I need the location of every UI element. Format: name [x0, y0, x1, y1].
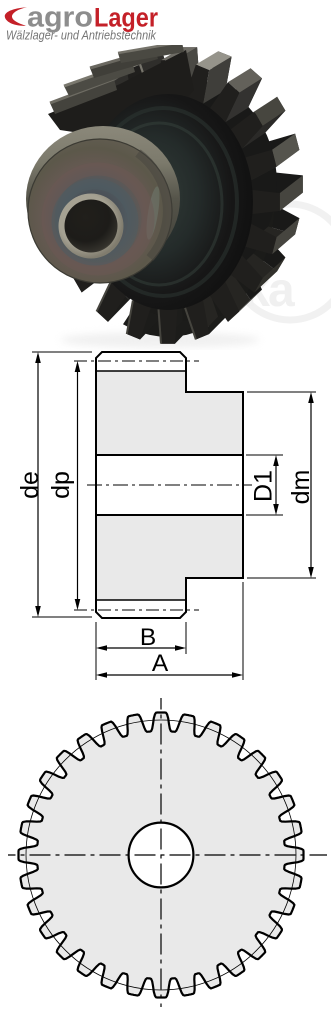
photo crown filler lower right [123, 193, 276, 337]
dm extension line top [247, 391, 316, 393]
hub gray fill lower [186, 515, 243, 578]
gear outline [96, 352, 243, 618]
photo hub side [26, 126, 180, 272]
pitch circle [26, 720, 296, 990]
photo hub face [28, 139, 172, 283]
B extension line right [185, 622, 187, 654]
photo hub tint ring purple [48, 169, 148, 269]
svg-text:dp: dp [47, 471, 75, 499]
B dimension line [96, 645, 186, 651]
photo hub cyan reflection [144, 186, 162, 241]
gear body gray fill lower [96, 515, 186, 600]
de extension line bottom [32, 616, 92, 618]
svg-text:B: B [140, 624, 156, 651]
de dimension line [35, 352, 41, 617]
svg-text:A: A [152, 650, 169, 677]
photo shadow [60, 332, 260, 348]
section drawing [0, 340, 331, 685]
A dimension line [96, 672, 243, 678]
dp dimension line [75, 361, 81, 610]
dm extension line bottom [247, 577, 316, 579]
D1 extension line top [246, 454, 283, 456]
dm dimension line [308, 392, 314, 578]
gear body gray fill upper [96, 371, 186, 455]
root line bottom [96, 599, 186, 601]
photo hub face right shadow [138, 153, 167, 258]
pitch centerline top [74, 360, 199, 362]
pitch centerline bottom [74, 609, 199, 611]
photo tooth top lands [280, 175, 303, 211]
D1 dimension line [273, 455, 279, 515]
gear photo [0, 45, 331, 350]
bore line top [96, 454, 243, 456]
photo gear front teeth [56, 60, 280, 343]
photo watermark ring [232, 204, 331, 320]
photo bore [65, 200, 118, 253]
photo shadow wedge under bars [48, 50, 194, 136]
logo swoosh [5, 7, 27, 26]
photo hub tint ring blue [57, 184, 133, 260]
de extension line top [32, 351, 92, 353]
B extension line left [95, 622, 97, 680]
vertical centerline [160, 698, 162, 1007]
svg-text:dm: dm [287, 470, 315, 505]
front view drawing [0, 685, 331, 1018]
root line top [96, 370, 186, 372]
bore axis centerline [87, 484, 252, 486]
svg-text:de: de [16, 471, 44, 499]
D1 extension line bottom [246, 514, 283, 516]
photo tooth edge highlights [140, 65, 151, 97]
hub gray fill upper [186, 392, 243, 455]
A extension line right [242, 582, 244, 680]
gear tooth profile outline [19, 713, 304, 998]
photo tooth side faces [253, 193, 303, 214]
photo counterbore ring [59, 194, 124, 259]
bore line bottom [96, 514, 243, 516]
photo disc face [83, 94, 253, 310]
bore circle [129, 823, 194, 888]
logo agroLager [0, 0, 331, 45]
svg-text:D1: D1 [250, 470, 278, 502]
svg-text:Wälzlager- und Antriebstechnik: Wälzlager- und Antriebstechnik [6, 28, 157, 43]
photo top-left tooth bars [50, 79, 117, 114]
photo disc grooves [89, 108, 237, 296]
horizontal centerline [8, 854, 327, 856]
photo gear back teeth [77, 47, 303, 320]
